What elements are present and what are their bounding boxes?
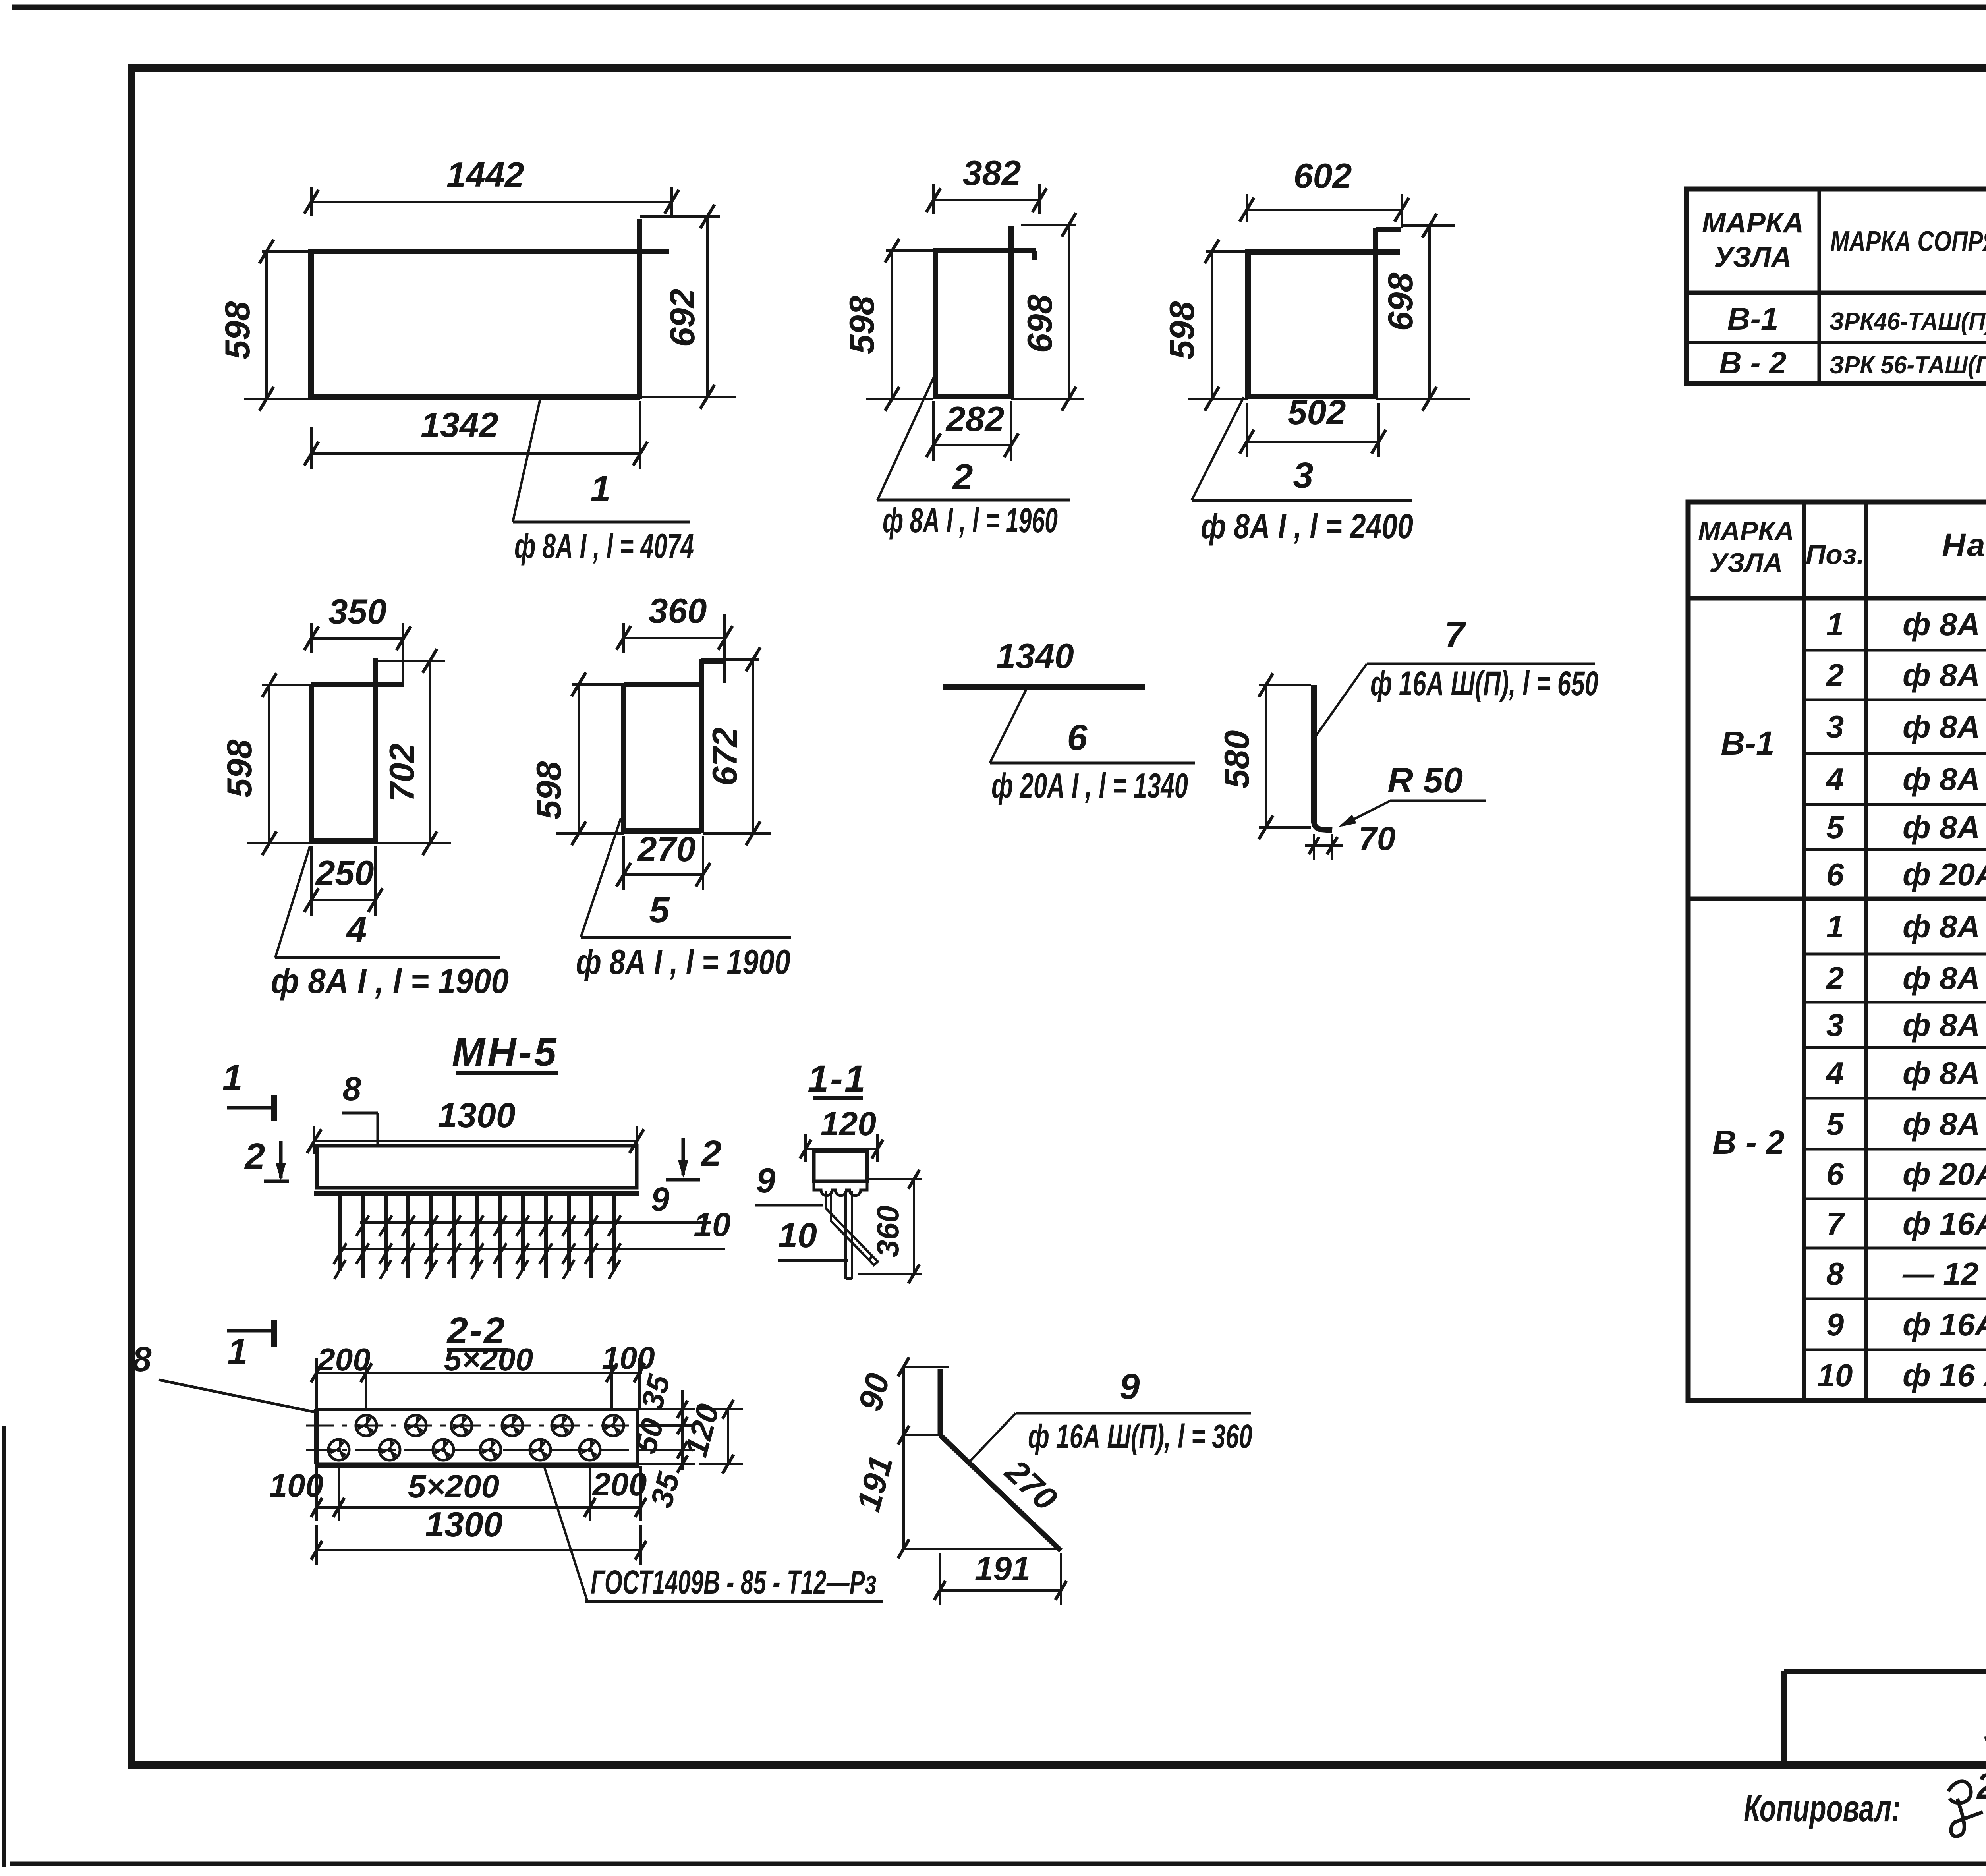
section mark 1 bottom bbox=[227, 1320, 274, 1372]
svg-text:ф 20А I ; l = 1340: ф 20А I ; l = 1340 bbox=[1903, 1156, 1986, 1192]
dim 698 of shape 3 bbox=[1376, 214, 1470, 411]
dim 1342 of shape 1 bbox=[304, 401, 647, 469]
big table B-2 mark and total bbox=[1712, 1124, 1986, 1165]
big table grid bbox=[1688, 502, 1986, 1401]
svg-text:ф 20А I , l = 1340: ф 20А I , l = 1340 bbox=[1903, 857, 1986, 892]
svg-text:R 50: R 50 bbox=[1387, 761, 1463, 800]
dim 598 of shape 5 bbox=[529, 672, 624, 845]
svg-text:270: 270 bbox=[637, 829, 696, 869]
svg-text:1300: 1300 bbox=[425, 1505, 503, 1544]
svg-text:598: 598 bbox=[220, 740, 259, 798]
section mark 2 right bbox=[666, 1133, 722, 1180]
svg-text:1: 1 bbox=[1826, 607, 1844, 642]
svg-text:25430-03: 25430-03 bbox=[1976, 1766, 1986, 1806]
leader 9 of section 1-1 bbox=[755, 1161, 823, 1205]
plate of MN-5 elevation bbox=[314, 1146, 639, 1193]
dim 70 of bar 7 bbox=[1305, 820, 1395, 860]
svg-text:4: 4 bbox=[1826, 1055, 1844, 1091]
svg-text:ф 8А I , l = 1900: ф 8А I , l = 1900 bbox=[271, 961, 509, 1001]
svg-text:100: 100 bbox=[269, 1468, 324, 1504]
hooked bar 7 bbox=[1314, 685, 1332, 830]
svg-text:ф 8А I , l = 1960: ф 8А I , l = 1960 bbox=[1903, 657, 1986, 693]
leader line 9 of MN-5 elevation bbox=[360, 1180, 711, 1223]
svg-text:360: 360 bbox=[649, 591, 707, 630]
svg-text:ф 8А I , l = 1960: ф 8А I , l = 1960 bbox=[883, 500, 1058, 540]
svg-text:ЗРК 56-ТАШ(П)-1;ЗРК56-ТАШ(П)2: ЗРК 56-ТАШ(П)-1;ЗРК56-ТАШ(П)2 bbox=[1829, 352, 1986, 379]
dim 1442 of shape 1 bbox=[304, 155, 679, 216]
dim 598 of shape 3 bbox=[1162, 240, 1248, 411]
leader and label of bar 9 bbox=[968, 1366, 1252, 1463]
sheet top edge line bbox=[12, 5, 1986, 10]
bottom dims of section 2-2 bbox=[269, 1464, 647, 1521]
svg-text:10: 10 bbox=[778, 1215, 817, 1255]
svg-text:360: 360 bbox=[870, 1206, 905, 1257]
leader and label of shape 5 bbox=[576, 818, 791, 981]
svg-text:ф 8А I , l = 2400: ф 8А I , l = 2400 bbox=[1903, 1007, 1986, 1043]
sheet bottom edge line bbox=[10, 1862, 1986, 1866]
sheet outer left edge line (lower part) bbox=[2, 1426, 6, 1867]
svg-text:5×200: 5×200 bbox=[408, 1468, 499, 1505]
svg-text:8: 8 bbox=[1826, 1256, 1844, 1291]
svg-text:191: 191 bbox=[975, 1550, 1030, 1587]
svg-text:350: 350 bbox=[328, 592, 387, 631]
big table B-1 mark and total bbox=[1721, 725, 1986, 780]
plate of section 1-1 bbox=[814, 1151, 867, 1196]
top table headers bbox=[1702, 199, 1986, 284]
bottom dim 191 of bar 9 bbox=[934, 1550, 1066, 1605]
leader and label of shape 1 bbox=[513, 399, 694, 566]
svg-text:200: 200 bbox=[317, 1342, 370, 1377]
dim 502 of shape 3 bbox=[1240, 392, 1386, 457]
dim 120 of section 1-1 bbox=[800, 1105, 883, 1162]
svg-text:ЗРК46-ТАШ(П)-1;ЗРК46-ТАШ(П)-2: ЗРК46-ТАШ(П)-1;ЗРК46-ТАШ(П)-2 bbox=[1829, 308, 1986, 335]
top table grid bbox=[1687, 189, 1986, 384]
svg-text:— 12 × 120, l = 1300: — 12 × 120, l = 1300 bbox=[1902, 1256, 1986, 1291]
svg-text:4: 4 bbox=[1826, 761, 1844, 797]
svg-text:1: 1 bbox=[590, 469, 610, 509]
svg-text:6: 6 bbox=[1067, 717, 1088, 758]
dim 270 along bar 9 bbox=[998, 1452, 1064, 1518]
svg-text:5: 5 bbox=[1826, 810, 1845, 845]
dim 360 of section 1-1 bbox=[858, 1170, 922, 1283]
top dims of section 2-2 bbox=[311, 1340, 655, 1409]
svg-text:702: 702 bbox=[382, 744, 421, 802]
dim 598 of shape 2 bbox=[842, 239, 933, 411]
svg-text:120: 120 bbox=[821, 1105, 876, 1142]
svg-text:МН-5: МН-5 bbox=[452, 1030, 558, 1074]
svg-text:ф 8А I , l = 4074: ф 8А I , l = 4074 bbox=[514, 526, 694, 566]
svg-text:4: 4 bbox=[346, 910, 367, 950]
svg-text:692: 692 bbox=[663, 289, 702, 347]
svg-text:В-1: В-1 bbox=[1721, 725, 1774, 762]
svg-text:1: 1 bbox=[227, 1331, 247, 1372]
bent bar 9 shape bbox=[940, 1369, 1061, 1551]
dim 360 of shape 5 bbox=[616, 591, 732, 683]
svg-text:6: 6 bbox=[1826, 1156, 1844, 1192]
svg-text:9: 9 bbox=[1119, 1366, 1140, 1407]
svg-text:10: 10 bbox=[1818, 1358, 1853, 1393]
svg-text:ф 20А I , l = 1340: ф 20А I , l = 1340 bbox=[991, 766, 1188, 805]
svg-text:2: 2 bbox=[244, 1136, 265, 1177]
section mark 2 left bbox=[244, 1136, 289, 1181]
dim 672 of shape 5 bbox=[701, 647, 771, 845]
svg-text:7: 7 bbox=[1444, 615, 1466, 655]
svg-text:1300: 1300 bbox=[438, 1095, 516, 1135]
svg-text:598: 598 bbox=[842, 296, 881, 354]
dim 1300 of MN-5 elevation bbox=[307, 1095, 644, 1154]
dim 382 of shape 2 bbox=[926, 153, 1047, 214]
bar shape 5 bent rebar bbox=[624, 659, 725, 833]
svg-text:9: 9 bbox=[756, 1161, 776, 1200]
bottom annotation 'Копировал' bbox=[1744, 1766, 1986, 1836]
leader and label of shape 3 bbox=[1192, 397, 1413, 546]
svg-text:100: 100 bbox=[602, 1340, 655, 1376]
top table row B-2 bbox=[1719, 344, 1986, 380]
svg-text:598: 598 bbox=[1162, 301, 1202, 360]
svg-text:2: 2 bbox=[952, 457, 973, 497]
dim 692 of shape 1 bbox=[640, 205, 736, 409]
svg-text:1: 1 bbox=[1826, 909, 1844, 944]
svg-text:Поз.: Поз. bbox=[1806, 539, 1864, 570]
svg-text:ф 8А I , l = 4074: ф 8А I , l = 4074 bbox=[1903, 909, 1986, 944]
svg-text:УЗЛА: УЗЛА bbox=[1710, 548, 1783, 578]
dim 602 of shape 3 bbox=[1240, 156, 1409, 228]
svg-text:ф 8А I , l = 1900: ф 8А I , l = 1900 bbox=[1903, 1055, 1986, 1091]
svg-text:ф 16А Ш(П), l = 650: ф 16А Ш(П), l = 650 bbox=[1370, 665, 1598, 703]
leader line 10 of MN-5 elevation bbox=[342, 1206, 731, 1249]
svg-text:ф 8А I , l = 1900: ф 8А I , l = 1900 bbox=[1903, 810, 1986, 845]
svg-text:5: 5 bbox=[649, 890, 670, 930]
svg-text:МАРКА: МАРКА bbox=[1702, 207, 1804, 239]
svg-text:1: 1 bbox=[222, 1058, 242, 1098]
bar shape 3 bent rebar bbox=[1248, 228, 1401, 399]
svg-text:1342: 1342 bbox=[421, 405, 498, 444]
svg-text:1442: 1442 bbox=[446, 155, 524, 194]
svg-text:8: 8 bbox=[343, 1070, 361, 1107]
svg-text:10: 10 bbox=[694, 1206, 730, 1243]
svg-text:9: 9 bbox=[1826, 1307, 1844, 1342]
svg-text:2: 2 bbox=[1826, 960, 1844, 996]
svg-text:7: 7 bbox=[1826, 1206, 1845, 1241]
svg-text:МАРКА СОПРЯГАЕМЫХ БЛОКОВ: МАРКА СОПРЯГАЕМЫХ БЛОКОВ bbox=[1830, 226, 1986, 257]
svg-text:ф 8А I , l = 1960: ф 8А I , l = 1960 bbox=[1903, 960, 1986, 996]
svg-text:Наименование: Наименование bbox=[1942, 527, 1986, 563]
dim 598 of shape 4 bbox=[220, 673, 311, 855]
section heading 1-1 bbox=[808, 1058, 867, 1100]
detail heading MN-5 bbox=[452, 1030, 558, 1074]
svg-text:698: 698 bbox=[1381, 273, 1420, 331]
leader and label of shape 2 bbox=[877, 375, 1070, 540]
svg-text:ф 16А Ш(П), l = 360: ф 16А Ш(П), l = 360 bbox=[1903, 1307, 1986, 1342]
anchor bars of MN-5 elevation bbox=[340, 1193, 614, 1278]
svg-text:70: 70 bbox=[1358, 820, 1395, 857]
svg-text:2: 2 bbox=[1826, 657, 1844, 693]
svg-text:672: 672 bbox=[705, 728, 744, 786]
svg-text:598: 598 bbox=[218, 301, 257, 360]
title block document number bbox=[1984, 1702, 1986, 1755]
svg-text:МАРКА: МАРКА bbox=[1698, 516, 1794, 546]
svg-text:В-1: В-1 bbox=[1727, 301, 1779, 336]
right dims 35-50-35 of section 2-2 bbox=[628, 1370, 695, 1511]
svg-text:382: 382 bbox=[963, 153, 1021, 193]
svg-text:ф 16 А Ш(П), l = 360: ф 16 А Ш(П), l = 360 bbox=[1903, 1358, 1986, 1393]
svg-text:В - 2: В - 2 bbox=[1712, 1124, 1785, 1161]
svg-text:698: 698 bbox=[1020, 295, 1059, 353]
svg-text:9: 9 bbox=[651, 1180, 670, 1218]
svg-text:5×200: 5×200 bbox=[444, 1342, 533, 1377]
svg-text:ГОСТ1409В - 85 - Т12—Рз: ГОСТ1409В - 85 - Т12—Рз bbox=[591, 1563, 877, 1601]
svg-text:В - 2: В - 2 bbox=[1719, 345, 1786, 380]
leader 8 of MN-5 elevation bbox=[342, 1070, 378, 1146]
weld symbols top row of section 2-2 bbox=[356, 1415, 624, 1436]
svg-text:3: 3 bbox=[1293, 455, 1313, 496]
dims 90 and 191 of bar 9 bbox=[849, 1357, 1061, 1558]
svg-text:3: 3 bbox=[1826, 709, 1844, 744]
svg-text:8: 8 bbox=[132, 1339, 152, 1379]
axis lines of section 2-2 bbox=[306, 1426, 667, 1450]
radius R50 note of bar 7 bbox=[1339, 761, 1486, 827]
GOST weld note of section 2-2 bbox=[544, 1465, 883, 1602]
bar shape 2 bent rebar bbox=[933, 226, 1036, 399]
big table rows group B-1 bbox=[1826, 607, 1986, 892]
dim 598 of shape 1 bbox=[218, 240, 309, 411]
section heading 2-2 bbox=[446, 1310, 508, 1352]
bar shape 1 bent rebar bbox=[309, 219, 669, 399]
svg-text:ф 8А I , l = 2400: ф 8А I , l = 2400 bbox=[1903, 709, 1986, 744]
svg-text:1340: 1340 bbox=[996, 636, 1074, 676]
svg-text:3.503.1-100.2-23: 3.503.1-100.2-23 bbox=[1984, 1702, 1986, 1755]
title block box bbox=[1784, 1671, 1986, 1765]
svg-text:200: 200 bbox=[592, 1466, 647, 1503]
svg-text:УЗЛА: УЗЛА bbox=[1714, 242, 1792, 273]
dim 1300 of section 2-2 bbox=[311, 1505, 646, 1565]
svg-text:250: 250 bbox=[315, 853, 374, 893]
svg-text:ф 16А Ш(П), l = 650: ф 16А Ш(П), l = 650 bbox=[1903, 1206, 1986, 1241]
svg-text:ф 8А I , l = 1900: ф 8А I , l = 1900 bbox=[1903, 761, 1986, 797]
svg-text:6: 6 bbox=[1826, 857, 1844, 892]
dim 702 of shape 4 bbox=[375, 649, 451, 855]
dim 120 right of section 2-2 bbox=[678, 1400, 743, 1474]
anchor bar 9 in section 1-1 bbox=[846, 1191, 852, 1279]
svg-text:3: 3 bbox=[1826, 1007, 1844, 1043]
straight bar 6 bbox=[943, 636, 1145, 687]
leader and label of bar 7 bbox=[1316, 615, 1598, 736]
svg-text:282: 282 bbox=[945, 399, 1005, 439]
svg-text:5: 5 bbox=[1826, 1106, 1845, 1142]
leader 8 of section 2-2 bbox=[132, 1339, 317, 1412]
dim 580 of bar 7 bbox=[1217, 673, 1311, 839]
dim 698 of shape 2 bbox=[1011, 213, 1084, 411]
leader and label of shape 4 bbox=[271, 846, 509, 1001]
tick marks on anchor bars bbox=[334, 1215, 621, 1279]
weld symbols bottom row of section 2-2 bbox=[328, 1439, 600, 1460]
leader and label of bar 6 bbox=[990, 690, 1195, 805]
dim 282 of shape 2 bbox=[926, 399, 1018, 461]
big table rows group B-2 bbox=[1818, 909, 1986, 1393]
anchor bar 10 in section 1-1 bbox=[826, 1191, 878, 1265]
svg-text:Копировал:: Копировал: bbox=[1744, 1787, 1901, 1830]
dim 270 of shape 5 bbox=[616, 829, 710, 890]
svg-text:1-1: 1-1 bbox=[808, 1058, 867, 1100]
big table headers bbox=[1698, 511, 1986, 595]
svg-text:ф 8А I , l = 1900: ф 8А I , l = 1900 bbox=[1903, 1106, 1986, 1142]
leader 10 of section 1-1 bbox=[778, 1215, 848, 1260]
section mark 1 top bbox=[222, 1058, 274, 1121]
svg-text:ф 16А Ш(П), l = 360: ф 16А Ш(П), l = 360 bbox=[1028, 1418, 1252, 1455]
top table row B-1 bbox=[1727, 301, 1986, 336]
svg-text:502: 502 bbox=[1288, 392, 1346, 432]
plate of section 2-2 bbox=[315, 1409, 639, 1465]
bar shape 4 bent rebar bbox=[311, 658, 404, 843]
svg-text:598: 598 bbox=[529, 761, 568, 820]
dim 350 of shape 4 bbox=[304, 592, 411, 684]
svg-text:ф 8А I , l = 4074: ф 8А I , l = 4074 bbox=[1903, 607, 1986, 642]
dim 250 of shape 4 bbox=[304, 846, 383, 916]
svg-text:ф 8А I , l = 2400: ф 8А I , l = 2400 bbox=[1201, 506, 1413, 546]
svg-text:2: 2 bbox=[700, 1133, 721, 1174]
svg-text:602: 602 bbox=[1294, 156, 1352, 195]
svg-text:580: 580 bbox=[1217, 730, 1256, 789]
svg-text:ф 8А I , l = 1900: ф 8А I , l = 1900 bbox=[576, 942, 790, 981]
